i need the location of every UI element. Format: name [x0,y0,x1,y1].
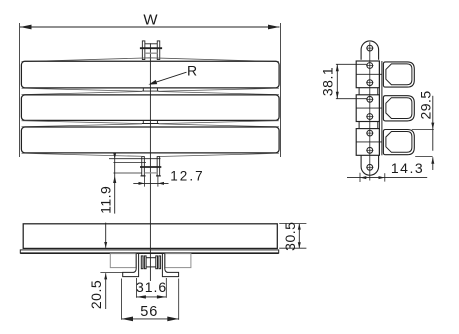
dimension 31.6 line [137,296,167,298]
dimension W extension line right [279,23,281,157]
right view link 3 plate [383,130,414,155]
dimension 11.9 extension line A [109,158,161,160]
pin ring 4 [159,256,161,269]
front bracket right [162,253,178,276]
gap 2 sag line left [22,121,143,124]
gap 2 hinge tab left tick [142,121,144,124]
right view link 3 hole upper [367,130,373,136]
right view top lug hole [367,45,373,51]
dimension 31.6 left arrow [137,295,146,298]
dimension W right arrow [268,25,280,30]
plate 1 [21,61,279,88]
dimension 56 extension tick right [178,279,180,320]
dimension 12.7 extension tick left [144,176,146,186]
right view link 3 hole lower [367,147,373,153]
dimension 29.5 extension top [412,128,434,130]
svg-text:29.5: 29.5 [418,90,434,119]
pin below plate 3 right post [157,157,160,176]
dimension 31.6 right arrow [157,295,166,298]
dimension 11.9 lower arrow [113,176,116,183]
pin body bottom line [146,266,156,268]
pin knuckle top line [113,161,146,163]
dimension 38.1 line [336,64,338,98]
right view link 2 plate inner [386,98,412,119]
svg-text:20.5: 20.5 [88,280,104,309]
gap 1 rise line left [22,92,143,95]
plate 3 bottom curvature right [160,153,279,156]
dimension 12.7 line [133,182,168,184]
dimension 29.5 lower arrow tail [432,157,434,170]
pin top view lower rung [145,52,157,54]
gap 2 rise line right [159,124,279,127]
gap 1 sag line left [22,88,143,91]
right view centerline [369,42,371,180]
right view gap lug 1 [358,88,360,95]
right view link 3 split [356,141,382,143]
dimension 56 extension tick left [121,279,123,320]
gap 2 hinge tab right tick [156,121,158,124]
pin top view upper rung [145,43,157,45]
dimension 30.5 extension top [279,223,306,225]
right view plate edge-on line [381,61,383,155]
right view link 2 body [356,95,379,122]
right view top lug [361,41,379,60]
dimension 20.5 upper arrow [104,242,107,248]
dimension 29.5 line [432,96,434,151]
svg-text:56: 56 [140,304,158,320]
pin below plate 3 right post foot [156,175,161,177]
pin top view right post [157,41,160,60]
bottom side view lip [20,250,278,253]
right view link 1 body [356,61,379,88]
dimension 29.5 extension bottom [415,155,432,157]
dimension 20.5 extension line [100,272,122,274]
gap 1 hinge tab left tick [142,88,144,91]
right view gap lug 2 [358,122,360,129]
dimension W line [20,26,280,28]
right view link 2 plate [383,96,414,121]
right view link 1 hole upper [367,63,373,69]
pin top view left post [142,41,145,60]
dimension 12.7 left arrow [139,182,145,185]
svg-text:W: W [143,11,158,28]
front bracket left [123,253,139,276]
gap 2 rise line left [22,124,143,127]
dimension 20.5 lower line [105,273,107,309]
rear bracket right (light) [165,254,191,268]
right view link 3 body [356,129,379,156]
right view link 3 plate inner [386,132,412,153]
dimension 31.6 extension tick left [136,278,138,298]
dimension 11.9 line [114,153,116,214]
right view bottom lug hole [367,164,373,170]
dimension 14.3 right arrow [379,176,385,179]
pin ring 3 [156,256,158,269]
pin ring 2 [144,256,146,269]
plate 1 top curvature line [22,58,279,62]
radius leader arrow R [151,72,187,84]
dimension W extension line left [19,23,21,157]
right view top lug hole cross [366,47,373,49]
right view link 1 split [356,73,382,75]
svg-text:30.5: 30.5 [282,222,298,251]
dimension 14.3 extension tick right [384,173,386,181]
dimension 12.7 right arrow [158,182,164,185]
pin top view heavy bar [140,47,162,49]
svg-text:38.1: 38.1 [320,67,336,96]
dimension 14.3 line [347,177,427,179]
dimension 20.5 lower arrow [104,273,107,279]
gap 1 sag line right [159,88,279,91]
dimension 14.3 extension tick left [359,173,361,182]
right view link 1 plate [383,62,414,87]
dimension 31.6 extension tick right [165,278,167,298]
dimension W left arrow [20,25,32,30]
right view link 2 split [356,107,382,109]
pin below plate 3 heavy bar [140,166,161,168]
pin below plate 3 left post [142,157,145,176]
plate 3 bottom curvature left [22,153,142,156]
pin below plate 3 left post foot [141,175,146,177]
dimension 56 left arrow [122,317,133,322]
dimension 56 line [122,318,179,320]
svg-text:11.9: 11.9 [98,186,114,214]
gap 2 hinge tab bar [142,123,159,125]
svg-text:14.3: 14.3 [391,160,424,176]
pin body top line [146,257,156,259]
gap 1 hinge tab bar [142,90,159,92]
dimension 56 right arrow [167,317,178,322]
dimension 29.5 lower arrow [431,157,434,164]
dimension 30.5 lower arrow [298,242,301,248]
dimension 30.5 line [298,224,300,249]
dimension 38.1 upper arrow [336,64,339,71]
dimension 38.1 extension bottom [336,98,367,100]
gap 1 hinge tab right tick [156,88,158,91]
right view link 1 plate inner [386,64,412,85]
dimension 30.5 extension bottom [279,247,306,249]
dimension 14.3 left arrow [360,176,366,179]
gap 2 sag line right [159,121,279,124]
dimension 11.9 upper arrow [113,153,116,159]
svg-text:12.7: 12.7 [170,169,204,184]
right view link 2 hole lower [367,114,373,120]
dimension 38.1 extension top [336,63,367,65]
dimension 30.5 upper arrow [298,224,301,230]
pin below plate 3 lower rung [144,172,157,174]
right view link 1 hole lower [367,80,373,86]
rear bracket left (light) [110,254,136,268]
dimension 20.5 upper line [105,223,107,248]
gap 1 rise line right [159,92,279,95]
svg-text:31.6: 31.6 [136,279,167,295]
centerline [149,43,151,281]
plate 2 [21,95,279,121]
right view bottom lug [361,155,379,175]
bottom side view plate [23,224,277,249]
dimension 38.1 lower arrow [336,92,339,99]
dimension 11.9 extension line C [113,172,141,174]
plate 3 [21,127,279,153]
dimension 12.7 extension tick right [157,176,159,186]
dimension 29.5 upper arrow [431,123,434,130]
right view link 2 hole upper [367,96,373,102]
bottom side view lip bottom heavy line [20,252,278,254]
pin ring 1 [141,256,143,269]
svg-text:R: R [187,62,197,78]
